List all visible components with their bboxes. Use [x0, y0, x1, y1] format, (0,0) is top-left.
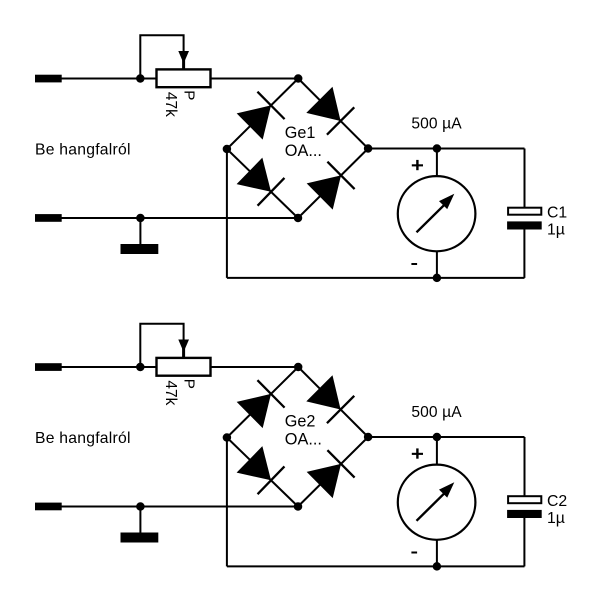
- svg-text:500 µA: 500 µA: [411, 404, 462, 421]
- svg-text:C1: C1: [547, 204, 567, 221]
- svg-text:C2: C2: [547, 493, 567, 510]
- svg-text:OA...: OA...: [285, 431, 322, 449]
- svg-text:1µ: 1µ: [547, 510, 565, 527]
- svg-text:47k: 47k: [162, 380, 179, 405]
- svg-text:Be hangfalról: Be hangfalról: [35, 142, 131, 159]
- svg-text:P: P: [181, 379, 198, 389]
- svg-text:500 µA: 500 µA: [411, 115, 462, 132]
- svg-text:1µ: 1µ: [547, 222, 565, 239]
- svg-text:Ge1: Ge1: [285, 124, 316, 142]
- svg-text:Be hangfalról: Be hangfalról: [35, 430, 131, 447]
- svg-text:47k: 47k: [162, 92, 179, 117]
- svg-text:P: P: [181, 90, 198, 100]
- svg-text:Ge2: Ge2: [285, 413, 316, 431]
- svg-text:OA...: OA...: [285, 142, 322, 160]
